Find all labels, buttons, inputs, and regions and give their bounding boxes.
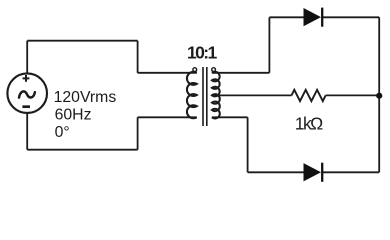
wire left step-up vertical xyxy=(137,117,139,149)
wire right vertical bus xyxy=(378,17,380,172)
wire source top lead xyxy=(26,41,28,74)
wire to primary top xyxy=(138,72,197,74)
wire bottom rail left of D2 xyxy=(248,171,304,173)
wire top-left horizontal xyxy=(27,40,137,42)
wire top riser vertical xyxy=(268,17,270,73)
wire top rail right of D1 xyxy=(322,16,379,18)
svg-text:120Vrms: 120Vrms xyxy=(54,89,117,106)
wire top rail left of D1 xyxy=(269,16,303,18)
transformer T1 primary winding xyxy=(187,72,197,118)
svg-text:60Hz: 60Hz xyxy=(55,106,92,123)
resistor R1 xyxy=(292,90,326,101)
diode D2 xyxy=(304,163,323,182)
transformer T1 secondary polarity dot xyxy=(212,68,216,72)
wire resistor to node xyxy=(326,94,380,96)
transformer T1 secondary winding xyxy=(212,72,220,119)
wire secondary bottom to dropper xyxy=(212,116,248,118)
wire bottom-left horizontal xyxy=(27,149,137,151)
wire to primary bottom xyxy=(138,116,197,118)
junction node xyxy=(376,93,382,99)
wire left step-down vertical xyxy=(137,41,139,73)
wire center tap to resistor xyxy=(212,94,292,96)
transformer T1 primary polarity dot xyxy=(193,68,197,72)
wire source bottom lead xyxy=(26,113,28,150)
diode D1 xyxy=(304,8,323,27)
svg-text:0°: 0° xyxy=(55,124,70,141)
wire secondary top to riser xyxy=(212,72,270,74)
wire bottom dropper vertical xyxy=(247,117,249,172)
wire bottom rail right of D2 xyxy=(322,171,379,173)
svg-text:10:1: 10:1 xyxy=(187,43,217,63)
ac source V1 xyxy=(7,73,47,113)
label 120Vrms 60Hz 0deg xyxy=(54,89,117,141)
svg-text:1kΩ: 1kΩ xyxy=(295,113,323,133)
transformer T1 core xyxy=(203,67,207,126)
